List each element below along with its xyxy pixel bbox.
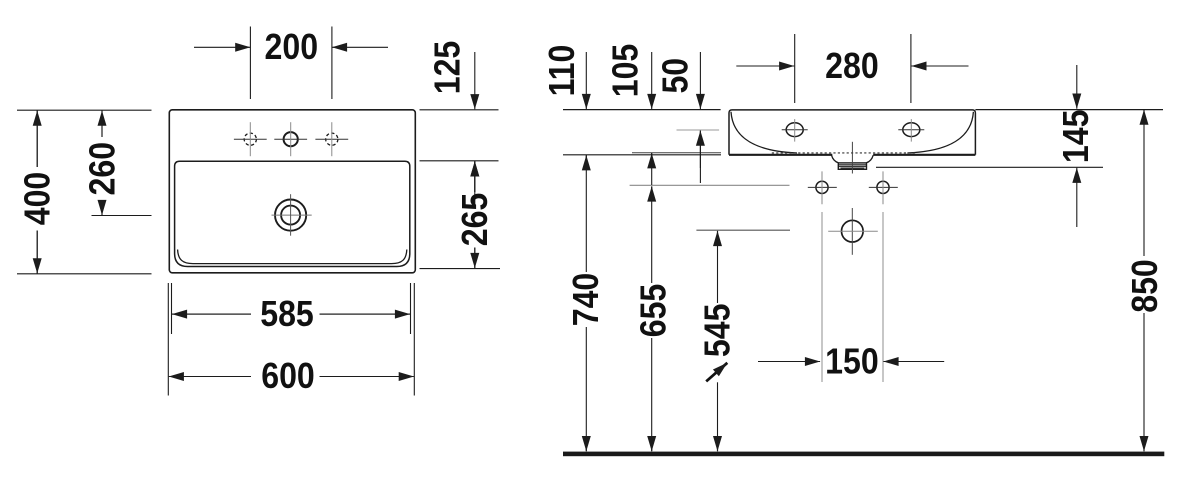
svg-text:280: 280 bbox=[825, 46, 879, 86]
svg-text:150: 150 bbox=[825, 342, 879, 382]
svg-text:50: 50 bbox=[656, 58, 696, 94]
svg-text:260: 260 bbox=[82, 142, 122, 196]
svg-text:145: 145 bbox=[1056, 110, 1096, 164]
svg-text:655: 655 bbox=[633, 284, 673, 338]
svg-text:850: 850 bbox=[1125, 259, 1165, 313]
svg-text:740: 740 bbox=[566, 273, 606, 327]
svg-text:600: 600 bbox=[261, 356, 315, 396]
svg-text:105: 105 bbox=[606, 44, 646, 98]
svg-text:125: 125 bbox=[428, 41, 468, 95]
svg-text:110: 110 bbox=[542, 45, 582, 97]
svg-text:585: 585 bbox=[260, 294, 314, 334]
svg-text:200: 200 bbox=[265, 27, 319, 67]
svg-text:545: 545 bbox=[698, 304, 738, 358]
svg-text:400: 400 bbox=[18, 172, 58, 226]
svg-text:265: 265 bbox=[455, 193, 495, 247]
